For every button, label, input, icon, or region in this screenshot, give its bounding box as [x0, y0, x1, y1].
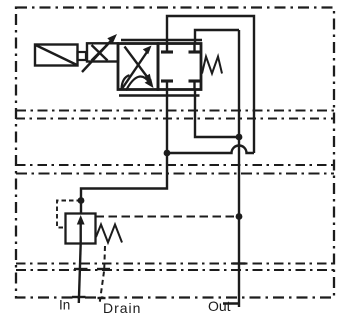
junction at crossover — [164, 150, 171, 157]
relief valve spring — [96, 225, 122, 243]
top plate line — [121, 39, 202, 41]
wire: bottom-right port to out junction — [195, 90, 239, 138]
in tick at border — [72, 296, 86, 298]
section divider line A2 — [16, 117, 334, 119]
wire: out line — [238, 30, 240, 307]
blocked port bottom-left — [161, 81, 173, 89]
wire: top-right port to out riser — [195, 30, 239, 44]
solenoid coil — [35, 45, 78, 66]
junction at out and top line — [236, 134, 243, 141]
wire: crossover with hop — [167, 146, 254, 153]
section divider line C2 — [16, 269, 334, 271]
blocked port top-left — [161, 44, 173, 52]
pilot stage box — [87, 43, 118, 61]
section divider line B1 — [16, 164, 334, 166]
pilot stage X stroke 1 — [92, 45, 108, 61]
relief pilot line — [57, 201, 81, 228]
junction at vent on out line — [236, 213, 243, 220]
section divider line B2 — [16, 172, 334, 174]
blocked port bottom-right — [189, 81, 201, 89]
svg-text:In: In — [59, 298, 70, 313]
in tick upper — [74, 268, 88, 270]
crossed flow arrow 2 — [125, 47, 152, 84]
valve left position box — [118, 44, 158, 90]
wire: top-left port loop — [167, 16, 254, 153]
large curved arrow — [126, 77, 154, 91]
crossed flow arrow 1 — [123, 46, 152, 89]
drain tick upper — [97, 268, 110, 270]
wire: bottom-left port down — [81, 90, 167, 214]
small curved arc — [122, 75, 130, 89]
pilot stage X stroke 2 — [92, 45, 108, 61]
proportional arrow — [82, 34, 117, 72]
junction at relief inlet — [78, 197, 85, 204]
solenoid diagonal — [36, 45, 78, 65]
wire: in line — [79, 244, 81, 304]
section divider line C1 — [16, 262, 334, 264]
drain line — [100, 246, 106, 304]
out tick upper — [233, 262, 246, 264]
section divider line A1 — [16, 109, 334, 111]
bottom plate line — [119, 94, 200, 96]
out tick at bottom — [223, 302, 240, 304]
vent line to out — [96, 216, 240, 218]
blocked port top-right — [189, 44, 201, 52]
solenoid stem — [78, 52, 87, 60]
relief valve box — [66, 214, 96, 244]
drain tick at border — [98, 297, 106, 299]
svg-text:Drain: Drain — [103, 300, 141, 316]
svg-text:Out: Out — [208, 298, 231, 314]
valve return spring — [202, 57, 222, 74]
valve right position box — [158, 44, 201, 90]
relief valve flow arrow — [77, 215, 85, 243]
